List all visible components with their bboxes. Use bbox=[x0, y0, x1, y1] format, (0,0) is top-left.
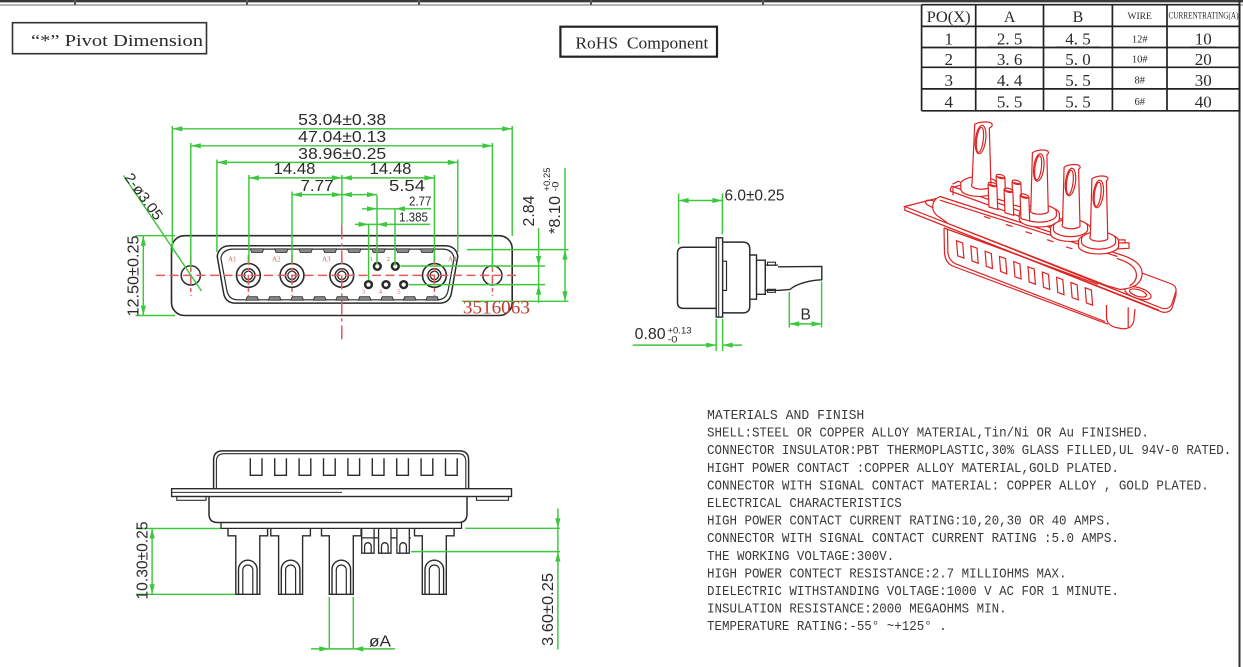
bottom view: signal pins bbox=[362, 528, 411, 553]
svg-text:ELECTRICAL CHARACTERISTICS: ELECTRICAL CHARACTERISTICS bbox=[707, 496, 902, 512]
svg-text:A: A bbox=[1004, 9, 1016, 26]
power contact A1 bbox=[237, 264, 261, 288]
svg-text:SHELL:STEEL OR COPPER ALLOY MA: SHELL:STEEL OR COPPER ALLOY MATERIAL,Tin… bbox=[707, 426, 1149, 442]
iso view: power pin 4 bbox=[1079, 233, 1119, 254]
contact centerline vertical (red) bbox=[491, 255, 493, 296]
svg-text:30: 30 bbox=[1195, 71, 1212, 90]
svg-text:5. 5: 5. 5 bbox=[997, 92, 1023, 111]
iso view: signal pins bbox=[996, 173, 1006, 201]
centerline vertical through A3 (red) bbox=[341, 225, 343, 340]
front view: shell ground notches bottom bbox=[246, 297, 439, 301]
svg-text:40: 40 bbox=[1195, 92, 1212, 111]
iso view: left mounting hole bbox=[924, 198, 942, 210]
svg-text:3516063: 3516063 bbox=[463, 297, 530, 318]
svg-text:1.385: 1.385 bbox=[399, 210, 428, 224]
iso view: power pin 3 bbox=[1051, 221, 1091, 242]
iso view: right mounting hole bbox=[1123, 284, 1152, 302]
svg-text:*8.10: *8.10 bbox=[547, 196, 564, 234]
front view: right mounting hole bbox=[483, 266, 502, 285]
svg-text:5. 0: 5. 0 bbox=[1065, 50, 1091, 69]
dim 14.48 right bbox=[342, 177, 435, 179]
svg-text:2. 5: 2. 5 bbox=[997, 30, 1023, 49]
svg-text:4: 4 bbox=[944, 92, 953, 111]
wire table bbox=[922, 5, 1240, 111]
svg-text:A1: A1 bbox=[228, 255, 237, 263]
front view: D-sub opening inner bbox=[221, 249, 454, 300]
iso view: insulator lid bbox=[950, 181, 1112, 247]
svg-text:RoHS Component: RoHS Component bbox=[575, 34, 708, 53]
svg-text:øA: øA bbox=[369, 634, 392, 651]
side view: body bbox=[723, 242, 750, 313]
side view: contact cap bbox=[678, 247, 718, 308]
svg-text:A4: A4 bbox=[448, 255, 457, 263]
iso view: D-shell band with slots bbox=[944, 228, 1108, 324]
svg-text:CONNECTOR WITH SIGNAL CONTACT: CONNECTOR WITH SIGNAL CONTACT CURRENT RA… bbox=[707, 531, 1119, 547]
svg-text:7.77: 7.77 bbox=[301, 178, 334, 195]
svg-text:1: 1 bbox=[370, 256, 373, 263]
iso view: lid bracket near pin 4 bbox=[1104, 240, 1129, 250]
front view: connector flange outline bbox=[172, 236, 513, 316]
contact centerline vertical (red) bbox=[291, 255, 293, 296]
bottom view: power pin 1 bbox=[228, 528, 268, 594]
bottom view: shell outer bbox=[214, 451, 469, 489]
extension lines front view bbox=[171, 126, 173, 253]
dim 6.0±0.25 bbox=[678, 194, 680, 245]
svg-text:HIGH POWER CONTACT CURRENT RAT: HIGH POWER CONTACT CURRENT RATING:10,20,… bbox=[707, 514, 1112, 530]
signal contact 2 bbox=[392, 263, 399, 270]
signal contact 5 bbox=[400, 281, 407, 288]
svg-text:2: 2 bbox=[387, 256, 390, 263]
right side extension lines bbox=[467, 249, 569, 251]
bottom view: 9 contact slots bbox=[250, 458, 457, 475]
iso view: flange plate bbox=[905, 198, 1176, 309]
svg-text:DIELECTRIC WITHSTANDING VOLTAG: DIELECTRIC WITHSTANDING VOLTAGE:1000 V A… bbox=[707, 584, 1119, 600]
dim 14.48 left bbox=[249, 177, 342, 179]
dim 47.04±0.13 bbox=[191, 145, 493, 147]
power contact A3 bbox=[330, 264, 354, 288]
svg-text:INSULATION RESISTANCE:2000 MEG: INSULATION RESISTANCE:2000 MEGAOHMS MIN. bbox=[707, 602, 1007, 618]
svg-text:14.48: 14.48 bbox=[370, 161, 412, 178]
power contact A4 bbox=[423, 264, 447, 288]
side view: contact step 1 bbox=[750, 255, 757, 299]
dim øA bbox=[328, 597, 330, 649]
centerline horizontal (red) bbox=[156, 274, 520, 276]
front view: left mounting hole bbox=[181, 266, 200, 285]
svg-text:14.48: 14.48 bbox=[274, 161, 316, 178]
svg-text:CURRENTRATING(A): CURRENTRATING(A) bbox=[1169, 11, 1239, 21]
leader 2-ø3.05 bbox=[124, 176, 202, 292]
front view: shell ground notches top bbox=[250, 249, 434, 253]
signal contact 1 bbox=[374, 263, 381, 270]
bottom view: power pin 3 bbox=[322, 528, 362, 594]
svg-text:20: 20 bbox=[1195, 50, 1212, 69]
bottom view: power pin 4 bbox=[415, 528, 455, 594]
dim B bbox=[788, 292, 790, 328]
sheet frame top border bbox=[0, 0, 1243, 2]
svg-text:2.77: 2.77 bbox=[409, 194, 432, 208]
iso view: shell slots bbox=[957, 241, 964, 258]
dim 53.04±0.38 bbox=[172, 128, 512, 130]
svg-text:0.80: 0.80 bbox=[635, 326, 666, 343]
bottom view: flange bar bbox=[172, 489, 512, 497]
note box: pivot dimension bbox=[13, 23, 207, 54]
svg-text:6#: 6# bbox=[1134, 97, 1145, 108]
signal contact 4 bbox=[383, 281, 390, 288]
svg-text:2.84: 2.84 bbox=[521, 195, 538, 226]
svg-text:10.30±0.25: 10.30±0.25 bbox=[134, 522, 151, 600]
svg-text:CONNECTOR WITH SIGNAL CONTACT: CONNECTOR WITH SIGNAL CONTACT MATERIAL: … bbox=[707, 478, 1209, 494]
side view: contact step 2 bbox=[757, 260, 766, 294]
iso view: power pin 1 bbox=[961, 177, 997, 197]
dim 0.80 +0.13/-0 bbox=[715, 319, 717, 351]
iso view: body band bbox=[933, 197, 1142, 290]
svg-text:“*” Pivot Dimension: “*” Pivot Dimension bbox=[31, 31, 203, 50]
svg-text:5. 5: 5. 5 bbox=[1065, 71, 1091, 90]
dim 2.84 bbox=[538, 228, 540, 303]
signal contact 3 bbox=[365, 281, 372, 288]
svg-text:3. 6: 3. 6 bbox=[997, 50, 1023, 69]
svg-text:A3: A3 bbox=[322, 255, 331, 263]
svg-text:B: B bbox=[1073, 9, 1084, 26]
svg-text:PO(X): PO(X) bbox=[927, 9, 971, 26]
dim 2.77 bbox=[362, 208, 431, 210]
iso view: power pin 2 bbox=[1019, 206, 1059, 227]
svg-text:4. 4: 4. 4 bbox=[997, 71, 1023, 90]
svg-text:3: 3 bbox=[362, 288, 365, 295]
svg-text:-0: -0 bbox=[550, 182, 561, 192]
iso view: body bottom slab right bbox=[1107, 305, 1136, 329]
contact centerline vertical (red) bbox=[433, 255, 435, 296]
dim 38.96±0.25 bbox=[217, 161, 458, 163]
side view: crimp section bbox=[765, 260, 778, 294]
svg-text:53.04±0.38: 53.04±0.38 bbox=[298, 112, 386, 129]
svg-text:12.50±0.25: 12.50±0.25 bbox=[126, 236, 143, 317]
svg-text:5.54: 5.54 bbox=[389, 178, 425, 195]
svg-text:10#: 10# bbox=[1132, 55, 1149, 66]
dim 7.77 bbox=[292, 194, 342, 196]
front view: D-sub opening outer bbox=[217, 246, 458, 303]
dim 1.385 bbox=[355, 223, 430, 225]
svg-text:5. 5: 5. 5 bbox=[1065, 92, 1091, 111]
svg-text:THE WORKING VOLTAGE:300V.: THE WORKING VOLTAGE:300V. bbox=[707, 549, 894, 565]
svg-text:2: 2 bbox=[944, 50, 953, 69]
bottom view: power pin 2 bbox=[271, 528, 311, 594]
power contact A2 bbox=[280, 264, 304, 288]
bottom view: insulator strip bbox=[221, 523, 462, 529]
svg-text:10: 10 bbox=[1195, 30, 1212, 49]
svg-text:-0: -0 bbox=[668, 335, 678, 346]
svg-text:1: 1 bbox=[944, 30, 953, 49]
svg-text:TEMPERATURE RATING:-55° ~+125°: TEMPERATURE RATING:-55° ~+125° . bbox=[707, 619, 947, 635]
svg-text:5: 5 bbox=[397, 288, 400, 295]
svg-text:3.60±0.25: 3.60±0.25 bbox=[540, 573, 557, 646]
contact centerline vertical (red) bbox=[247, 255, 249, 296]
side view: insulator lip bbox=[723, 261, 727, 290]
bottom view: flange end tabs bbox=[177, 497, 206, 501]
svg-text:4. 5: 4. 5 bbox=[1065, 30, 1091, 49]
iso view: body band hatch ticks bbox=[984, 216, 1073, 249]
sheet frame right border bbox=[1239, 0, 1241, 667]
svg-text:3: 3 bbox=[944, 71, 953, 90]
svg-text:A2: A2 bbox=[272, 255, 281, 263]
dim 3.60±0.25 bbox=[465, 527, 560, 529]
dim 10.30±0.25 bbox=[136, 528, 221, 530]
svg-text:HIGH POWER CONTECT RESISTANCE:: HIGH POWER CONTECT RESISTANCE:2.7 MILLIO… bbox=[707, 566, 1067, 582]
svg-text:12#: 12# bbox=[1132, 34, 1149, 45]
bottom view: shell inner bbox=[216, 454, 465, 489]
bottom view: body bbox=[209, 497, 467, 523]
note box: RoHS bbox=[560, 27, 717, 57]
svg-text:6.0±0.25: 6.0±0.25 bbox=[725, 187, 785, 204]
svg-text:MATERIALS AND FINISH: MATERIALS AND FINISH bbox=[707, 408, 864, 424]
svg-text:47.04±0.13: 47.04±0.13 bbox=[298, 129, 386, 146]
svg-text:CONNECTOR INSULATOR:PBT THERMO: CONNECTOR INSULATOR:PBT THERMOPLASTIC,30… bbox=[707, 443, 1231, 459]
side view: flange plate bbox=[716, 238, 722, 317]
svg-text:WIRE: WIRE bbox=[1128, 12, 1152, 22]
dim 5.54 bbox=[342, 194, 377, 196]
svg-text:B: B bbox=[801, 307, 811, 324]
side view: crimp tab bbox=[778, 266, 822, 290]
dim 12.50±0.25 bbox=[136, 235, 176, 237]
dim *8.10 +0.25/-0 bbox=[564, 168, 566, 301]
contact centerline vertical (red) bbox=[190, 255, 192, 296]
svg-text:8#: 8# bbox=[1134, 76, 1145, 87]
svg-text:HIGHT POWER CONTACT :COPPER AL: HIGHT POWER CONTACT :COPPER ALLOY MATERI… bbox=[707, 461, 1119, 477]
